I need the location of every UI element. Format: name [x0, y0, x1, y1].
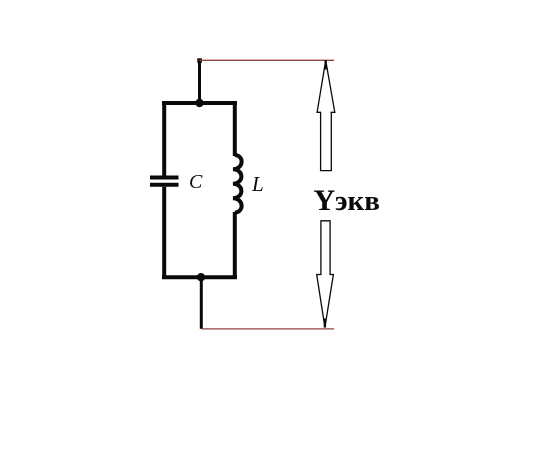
arrow: down (hollow) — [317, 221, 334, 328]
wire: top red lead — [200, 59, 335, 61]
wire: bottom red lead — [202, 328, 335, 330]
capacitor C — [150, 178, 179, 185]
wire: bottom terminal stub — [200, 277, 203, 329]
wire: loop right vertical lower — [233, 212, 237, 279]
svg-text:L: L — [251, 172, 264, 196]
svg-text:Y: Y — [314, 184, 336, 217]
node: top junction — [195, 99, 203, 107]
wire: loop right vertical upper — [233, 101, 237, 156]
wire: loop bottom horizontal — [162, 275, 237, 279]
arrow: up (hollow) — [317, 60, 335, 170]
wire: loop left vertical upper — [162, 101, 166, 176]
inductor L — [233, 155, 242, 213]
label Y экв — [314, 184, 380, 217]
node: bottom junction — [197, 273, 205, 281]
wire: loop top horizontal — [162, 101, 237, 105]
svg-text:C: C — [189, 171, 203, 193]
wire: top terminal stub — [197, 58, 202, 104]
svg-text:экв: экв — [335, 185, 380, 217]
wire: loop left vertical lower — [162, 187, 166, 279]
